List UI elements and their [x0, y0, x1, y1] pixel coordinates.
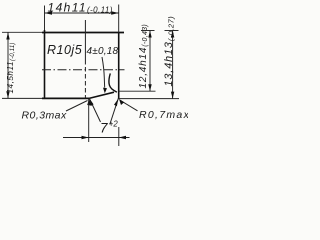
centerline axis y=69.5 dash-dot: [42, 69, 125, 71]
leader R0,3max: [66, 101, 88, 112]
hidden dashed line x=85.4: [84, 20, 86, 60]
right dimension line 12,4: [149, 31, 151, 92]
svg-text:R0,7max: R0,7max: [139, 109, 188, 121]
right extension tick top dim1: [141, 30, 155, 32]
right extension line y=91: [119, 90, 156, 92]
dim1 bottom arrow: [148, 84, 151, 91]
left extension line bottom: [2, 97, 42, 99]
part outline left edge: [44, 30, 46, 98]
leader R0,7max arrow: [119, 99, 124, 105]
angle dim left arrow: [82, 136, 89, 139]
part outline bottom edge: [42, 97, 89, 99]
arrow at corner on right slanted leg: [114, 99, 118, 106]
svg-text:13,4h13(-0,27): 13,4h13(-0,27): [163, 16, 175, 87]
left extension line top: [2, 31, 42, 33]
top dim right arrow: [111, 11, 119, 15]
dim2 top arrow: [171, 31, 174, 38]
dim2 bottom arrow: [171, 92, 174, 99]
vertical reference line from kink: [88, 99, 90, 142]
right extension tick top dim2: [165, 30, 179, 32]
leader curve from 4±0,18 to corner: [102, 57, 105, 88]
top dim left arrow: [45, 11, 53, 15]
svg-text:+2: +2: [109, 120, 119, 129]
angle side extension slanted right: [110, 98, 119, 124]
left dim top arrow: [6, 32, 9, 39]
extension line above right corner: [118, 5, 120, 33]
angle side extension slanted left: [89, 99, 100, 123]
vertical reference line from right corner: [118, 127, 120, 146]
angle dimension line: [63, 137, 130, 139]
extension line above left corner: [44, 6, 46, 31]
part outline lip curve: [109, 73, 117, 92]
part outline right edge: [118, 33, 120, 100]
svg-text:R0,3max: R0,3max: [22, 110, 67, 122]
svg-text:7: 7: [100, 121, 108, 136]
dim1 top arrow: [148, 31, 151, 38]
svg-text:14h11(-0,11): 14h11(-0,11): [48, 1, 113, 15]
angle dim right arrow: [119, 136, 126, 139]
part outline top edge: [42, 32, 124, 34]
svg-text:12,4h14(-0,43): 12,4h14(-0,43): [138, 24, 149, 88]
right dimension line 13,4: [172, 31, 174, 99]
left dimension line 14,5: [7, 32, 9, 98]
leader R0,3max arrow: [87, 99, 92, 106]
leader arrow at corner: [103, 88, 107, 94]
right extension line y=98.5: [119, 98, 179, 100]
svg-text:4±0,18: 4±0,18: [87, 46, 119, 57]
leader R0,7max: [120, 100, 138, 111]
top dimension line 14h11: [45, 12, 119, 14]
left dim bottom arrow: [6, 91, 9, 98]
part outline sloped groove bottom 7deg: [89, 92, 114, 98]
arrow at kink on slanted leg: [89, 99, 93, 106]
svg-text:R10j5: R10j5: [47, 43, 82, 57]
